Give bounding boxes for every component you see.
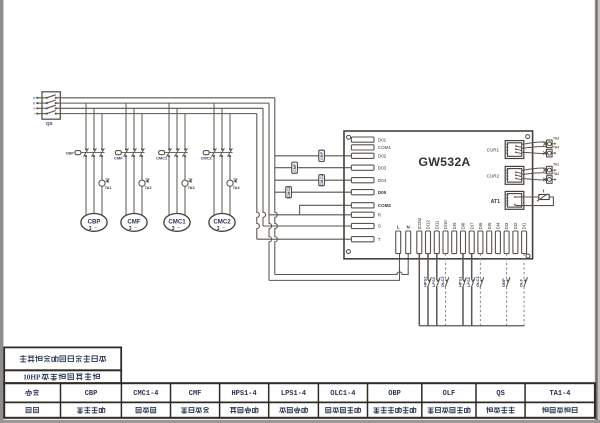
contactor CBP pilot block	[75, 151, 81, 155]
contactor CMF main contacts	[121, 148, 144, 157]
terminal DI11	[434, 220, 439, 254]
svg-text:TA4: TA4	[553, 146, 559, 150]
protection contact HPS2	[427, 277, 431, 287]
protection contact LPS2	[436, 277, 440, 287]
wire DI3 upper	[506, 254, 508, 280]
svg-text:3: 3	[129, 226, 132, 232]
wire N vertical drop (with hops over R S T lines)	[275, 98, 278, 275]
svg-text:DI8: DI8	[461, 222, 466, 229]
terminal DI12	[426, 220, 431, 254]
terminal DI1	[522, 222, 527, 254]
current transformer TA4	[227, 179, 238, 186]
connector AT1 pins	[514, 196, 516, 205]
svg-text:LPS2: LPS2	[431, 276, 436, 287]
table row: descriptions	[26, 407, 577, 413]
current transformer TA2	[139, 179, 150, 186]
svg-text:D01: D01	[378, 137, 387, 142]
protection contact HPS1	[462, 277, 466, 287]
svg-text:TA1-4: TA1-4	[549, 390, 570, 398]
svg-text:OLC2: OLC2	[440, 276, 445, 287]
svg-text:HPS1-4: HPS1-4	[231, 390, 256, 398]
terminal R	[351, 212, 381, 217]
svg-text:3: 3	[172, 226, 175, 232]
terminal D05	[351, 190, 386, 195]
svg-text:CMC1-4: CMC1-4	[133, 390, 158, 398]
terminal D03	[351, 165, 386, 170]
wire CMF motor leads	[126, 156, 142, 215]
contactor CMC1 main contacts	[165, 148, 188, 157]
protection contact OLC2	[445, 277, 449, 287]
svg-text:L: L	[397, 225, 400, 230]
terminal D02	[351, 153, 386, 158]
terminal N	[406, 225, 411, 254]
svg-text:DI2: DI2	[513, 222, 518, 229]
legend table	[4, 383, 595, 418]
svg-text:TA3: TA3	[188, 186, 195, 190]
svg-text:CMC1: CMC1	[320, 175, 324, 186]
current sensor tap TA1	[543, 166, 556, 174]
svg-text:GW532A: GW532A	[418, 155, 470, 169]
wire D0x output to coil CBP	[275, 155, 352, 157]
svg-text:OBP: OBP	[388, 390, 401, 398]
contactor CMC2 pilot block	[203, 151, 209, 155]
svg-text:DI5: DI5	[487, 222, 492, 229]
wire D0x output to coil CMC1	[275, 179, 352, 181]
wire CMC1 motor leads	[169, 156, 185, 215]
svg-text:TA1: TA1	[553, 163, 559, 167]
svg-text:CMF: CMF	[189, 390, 202, 398]
wire DI1 upper	[523, 254, 525, 280]
terminal DI10	[443, 220, 448, 254]
svg-text:D04: D04	[378, 178, 387, 183]
wire DI11 upper	[436, 254, 438, 280]
svg-text:CMC2: CMC2	[201, 156, 213, 161]
current transformer TA1	[99, 179, 110, 186]
wire CMC2 phase drops from bus	[214, 103, 230, 149]
svg-text:10HP: 10HP	[23, 373, 41, 381]
wire T phase line to T terminal	[257, 238, 352, 240]
svg-text:D02: D02	[378, 154, 387, 159]
wire N horizontal to controller N terminal (hop over L wire)	[275, 254, 408, 275]
coil CMF (contactor coil)	[292, 162, 298, 173]
svg-text:COM1: COM1	[378, 145, 392, 150]
wire ICOM common to protection bus	[418, 254, 420, 326]
svg-text:D05: D05	[378, 190, 387, 195]
wire CBP motor leads	[86, 156, 102, 215]
current sensor tap TA3	[543, 140, 556, 148]
svg-text:DI7: DI7	[469, 222, 474, 229]
title block company box	[4, 347, 121, 370]
terminal DI7	[469, 222, 474, 254]
wire AT1 sensor loop	[515, 197, 554, 206]
connector CUR1	[505, 141, 524, 159]
terminal DI4	[495, 222, 500, 254]
title block drawing name box	[4, 370, 121, 383]
svg-text:COM2: COM2	[378, 203, 392, 208]
svg-text:CMF: CMF	[293, 163, 297, 172]
coil CMC2 (contactor coil)	[286, 187, 292, 198]
svg-text:OLF: OLF	[443, 390, 456, 398]
contactor CMC2 main contacts	[209, 148, 233, 157]
svg-text:CUR2: CUR2	[487, 173, 500, 178]
switch QS (4-pole power switch)	[36, 92, 60, 119]
svg-text:DI1: DI1	[522, 222, 527, 229]
wire L supply horizontal to controller L terminal	[269, 254, 400, 280]
svg-text:DI6: DI6	[478, 222, 483, 229]
svg-text:ICOM: ICOM	[417, 218, 422, 230]
wire DI12 lower	[427, 287, 429, 326]
terminal L	[396, 225, 401, 254]
svg-text:S: S	[378, 224, 381, 229]
svg-text:OLF: OLF	[519, 278, 524, 287]
motor CMF (3-phase)	[121, 214, 147, 233]
wire S phase line to S terminal	[263, 225, 352, 227]
wire bus N (top)	[60, 97, 274, 99]
svg-text:HPS2: HPS2	[422, 276, 427, 287]
wire CMF phase drops from bus	[126, 103, 142, 149]
contactor CMC1 pilot block	[159, 151, 165, 155]
svg-text:TA3: TA3	[553, 136, 559, 140]
protection contact OLC1	[480, 277, 484, 287]
svg-text:CMF: CMF	[114, 156, 123, 161]
terminal ICOM	[417, 218, 422, 254]
svg-text:DI3: DI3	[504, 222, 509, 229]
terminal DI6	[478, 222, 483, 254]
wire DI11 lower	[436, 287, 438, 326]
contactor CMF pilot block	[115, 151, 121, 155]
svg-text:CBP: CBP	[85, 390, 98, 398]
wire DI8 upper	[462, 254, 464, 280]
svg-text:DI10: DI10	[443, 220, 448, 230]
coil CBP (contactor coil)	[319, 150, 325, 161]
table row: symbols	[26, 390, 571, 398]
svg-text:DI12: DI12	[426, 220, 431, 230]
wire R vertical drop (hops over S T lines)	[269, 103, 272, 280]
svg-text:DI4: DI4	[496, 222, 501, 229]
wire DI3 lower	[506, 287, 508, 326]
wire DI6 upper	[479, 254, 481, 280]
svg-text:OLC1: OLC1	[475, 276, 480, 287]
terminal DI2	[513, 222, 518, 254]
coil CMC1 (contactor coil)	[319, 175, 325, 186]
wire T vertical drop (hops over R S lines)	[257, 114, 260, 240]
svg-text:LPS1: LPS1	[466, 276, 471, 287]
protection contact OLF	[524, 277, 528, 287]
wire D0x output to coil CMC2	[275, 191, 352, 193]
wire COM2 jumper to R line	[300, 205, 352, 215]
connector CUR2 pins	[515, 171, 521, 179]
wire CMC1 phase drops from bus	[169, 103, 185, 149]
terminal DI9	[452, 222, 457, 254]
wire CBP phase drops from bus	[86, 103, 102, 149]
wire CMC2 motor leads	[214, 156, 230, 215]
svg-text:DI11: DI11	[434, 220, 439, 229]
svg-text:AT1: AT1	[491, 199, 501, 205]
svg-text:3: 3	[89, 226, 92, 232]
current transformer TA3	[182, 179, 193, 186]
wire DI7 upper	[471, 254, 473, 280]
svg-text:CBP: CBP	[320, 151, 324, 159]
connector CUR1 pins	[515, 145, 521, 154]
terminal S	[351, 223, 380, 228]
controller U1 GW532A outline	[344, 131, 533, 259]
mounting screws	[346, 135, 530, 258]
wire DI12 upper	[427, 254, 429, 280]
wire bus S	[60, 107, 263, 109]
wire DI8 lower	[462, 287, 464, 326]
connector CUR2	[505, 166, 524, 184]
motor CBP (3-phase)	[81, 214, 107, 233]
wire DI6 lower	[479, 287, 481, 326]
svg-text:TA1: TA1	[105, 186, 112, 190]
motor CMC1 (3-phase)	[164, 214, 190, 233]
terminal DI3	[504, 222, 509, 254]
wire DI7 lower	[471, 287, 473, 326]
svg-text:TA2: TA2	[145, 186, 152, 190]
wire D0x output to coil CMF	[275, 167, 352, 169]
motor CMC2 (3-phase)	[209, 214, 235, 233]
svg-text:T: T	[34, 112, 36, 116]
protection contact LPS1	[471, 277, 475, 287]
svg-text:QS: QS	[46, 121, 53, 126]
terminal DI8	[461, 222, 466, 254]
terminal DI5	[487, 222, 492, 254]
svg-text:S: S	[33, 107, 35, 111]
wire CUR1 to TA3/TA4	[522, 142, 547, 154]
svg-text:TA4: TA4	[233, 186, 241, 190]
svg-text:OLC1-4: OLC1-4	[330, 390, 355, 398]
svg-text:OBP: OBP	[501, 278, 506, 287]
terminal COM2	[351, 203, 391, 208]
current sensor tap TA2	[543, 176, 556, 184]
thermistor t (AT1 temperature sensor)	[537, 194, 549, 201]
wire R phase line to R terminal	[269, 214, 352, 216]
svg-text:HPS1: HPS1	[457, 276, 462, 287]
svg-text:3: 3	[217, 226, 220, 232]
wire DI10 lower	[445, 287, 447, 326]
protection contact OBP	[506, 277, 510, 287]
wire S vertical drop (hop over R line)	[263, 108, 266, 226]
current sensor tap TA4	[543, 149, 556, 157]
svg-text:TA2: TA2	[553, 172, 559, 176]
wire bus T	[60, 113, 256, 115]
svg-text:T: T	[378, 237, 381, 242]
terminal T	[351, 237, 380, 242]
svg-text:QS: QS	[496, 390, 504, 398]
wire CUR2 to TA1/TA2	[522, 168, 547, 180]
terminal COM1	[351, 145, 391, 150]
terminal D01	[351, 137, 386, 142]
svg-text:D03: D03	[378, 165, 387, 170]
contactor CBP main contacts	[81, 148, 105, 157]
svg-text:CMC1: CMC1	[156, 156, 168, 161]
wire DI1 lower	[523, 287, 525, 326]
svg-text:CBP: CBP	[66, 150, 75, 155]
svg-text:CUR1: CUR1	[487, 148, 500, 153]
connector AT1	[505, 191, 524, 209]
terminal D04	[351, 178, 386, 183]
wire DI10 upper	[445, 254, 447, 280]
svg-text:DI9: DI9	[452, 222, 457, 229]
wire protection common bus	[419, 325, 524, 327]
wire bus R	[60, 102, 269, 104]
svg-text:CMC2: CMC2	[287, 187, 291, 198]
svg-text:LPS1-4: LPS1-4	[281, 390, 306, 398]
